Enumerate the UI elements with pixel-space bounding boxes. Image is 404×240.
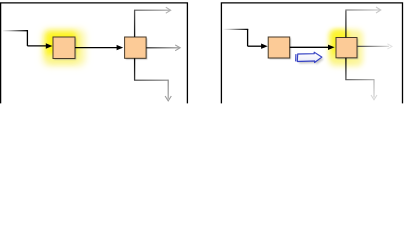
process box B4 (highlighted) — [336, 38, 358, 60]
arrowhead into B2 — [117, 45, 124, 50]
open arrowhead up-output — [166, 7, 171, 13]
wire: entry connector panel 2 — [224, 28, 249, 30]
wire: entry elbow down — [247, 29, 249, 46]
wire: entry connector into B1 — [3, 30, 28, 32]
wire: B2 output down — [134, 58, 136, 80]
wire: B4 down-output final drop (faint) — [373, 79, 375, 97]
process box B2 — [125, 37, 148, 60]
slide 1 frame (left panel, no bottom border) — [1, 3, 188, 104]
open arrowhead up-output p2 — [376, 7, 381, 13]
open arrowhead right-output p2 (faint) — [387, 44, 392, 49]
highlight glow on process box B4 — [329, 30, 363, 67]
wire: B4 down-output right run — [345, 79, 374, 81]
wire: entry elbow down — [26, 30, 28, 46]
arrowhead into B4 — [328, 45, 335, 50]
open arrowhead right-output — [175, 45, 180, 51]
wire: B4 output right (faint) — [357, 45, 389, 47]
open arrowhead down-output p2 (faint) — [371, 95, 377, 100]
wire: B4 output up — [345, 11, 347, 38]
wire: B2 output up — [134, 10, 136, 37]
wire: B2 output up, right run — [134, 9, 170, 11]
block arrow pointer (striped right arrow, blue emphasis) — [296, 52, 324, 64]
highlight glow on process box B1 — [43, 30, 85, 66]
wire: B4 output down — [345, 58, 347, 80]
wire: B2 output right — [146, 47, 179, 49]
wire: entry into box B3 — [248, 45, 262, 47]
wire: entry into box B1 — [27, 45, 46, 47]
open arrowhead down-output — [165, 96, 171, 101]
process box B1 (highlighted) — [53, 37, 76, 60]
wire: B1 to B2 connector — [75, 47, 118, 49]
wire: B3 to B4 connector — [290, 46, 329, 48]
wire: down-output final drop — [167, 80, 169, 99]
process box B3 — [268, 37, 291, 59]
arrowhead into B3 — [261, 44, 268, 49]
wire: B4 up-output right run — [345, 9, 379, 11]
slide 2 frame (right panel, no bottom border) — [221, 3, 402, 104]
arrowhead into B1 — [46, 43, 53, 48]
wire: down-output right run — [134, 79, 168, 81]
